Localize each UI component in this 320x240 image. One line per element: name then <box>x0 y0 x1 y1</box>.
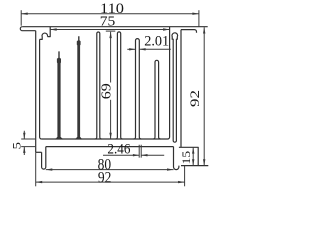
right bottom notch <box>179 147 198 165</box>
right wall inner face <box>169 27 171 137</box>
dim 5 ext ticks <box>21 139 35 147</box>
fin B <box>116 32 123 139</box>
dim 2.01 right tail <box>139 48 171 50</box>
arrow 2.46 left <box>133 154 139 156</box>
dim 110 line <box>21 13 199 15</box>
dim 75 line <box>50 29 169 31</box>
left screw-port curl <box>40 33 48 39</box>
arrow 69 bottom <box>109 133 111 139</box>
fin A <box>95 32 102 139</box>
arrow 2.01 right <box>139 48 145 50</box>
arrow 5 top <box>23 133 25 139</box>
dim 110 ext right <box>198 10 200 27</box>
right flange underside with hook <box>181 30 197 33</box>
dimension texts <box>9 1 202 187</box>
arrow 75 right <box>163 28 170 30</box>
needle fin 1 <box>57 51 61 139</box>
right wall outer face <box>180 30 182 148</box>
arrow 5 bottom <box>23 147 25 153</box>
svg-text:92: 92 <box>188 90 202 107</box>
dim 2.46 tails <box>103 154 164 156</box>
dim 69 line lower <box>110 100 112 139</box>
needle fin 2 base fillets <box>75 137 82 139</box>
dim 110 ext left <box>20 10 22 26</box>
dim 80 line <box>46 169 174 171</box>
base bottom surface <box>46 146 174 148</box>
left wall inner lower face <box>40 39 42 139</box>
svg-text:92: 92 <box>98 169 112 186</box>
fin D <box>153 60 160 139</box>
arrow 75 left <box>50 28 57 30</box>
svg-text:69: 69 <box>99 83 114 99</box>
svg-text:15: 15 <box>181 151 193 165</box>
arrow 2.01 left <box>129 48 135 50</box>
right screw-port curl and slot <box>172 33 178 142</box>
left leg <box>42 147 46 170</box>
svg-text:5: 5 <box>9 142 23 150</box>
dim 92 bottom ext left <box>35 152 37 186</box>
arrow 110 left <box>21 13 28 15</box>
arrow 92 right bottom <box>203 159 205 165</box>
dim 92 bottom ext right <box>184 166 186 186</box>
top-left flange lip nose <box>20 27 35 31</box>
dim 92 right line <box>203 27 205 165</box>
arrow 80 right <box>167 168 174 170</box>
right leg <box>173 147 178 170</box>
dim 2.46 ext ticks <box>139 145 141 158</box>
dim 2.01 left tail <box>127 48 135 50</box>
base top surface <box>42 137 170 139</box>
arrow 69 top <box>109 32 111 38</box>
needle fin 1 base fillets <box>56 137 63 139</box>
profile top plate <box>22 26 207 28</box>
arrow 92 right top <box>203 27 205 33</box>
left wall inner upper face <box>48 27 51 37</box>
left wall outer face <box>35 31 37 153</box>
left wall bottom step <box>36 151 42 153</box>
needle fin 2 <box>77 36 81 139</box>
arrowheads <box>21 13 205 184</box>
fin C <box>134 39 142 139</box>
dim 69 line upper <box>110 32 112 83</box>
arrow 110 right <box>192 13 199 15</box>
dim 92 bottom line <box>36 181 185 183</box>
svg-text:2.46: 2.46 <box>107 142 130 158</box>
dim 69 top tick <box>106 30 116 32</box>
svg-text:2.01: 2.01 <box>144 34 169 50</box>
arrow 2.46 right <box>141 154 147 156</box>
arrow 92 bottom right <box>178 181 185 183</box>
arrow 92 bottom left <box>36 181 43 183</box>
arrow 15 top <box>192 147 194 153</box>
dimension lines <box>21 10 204 186</box>
svg-text:75: 75 <box>100 14 116 29</box>
dim 5 arrow tails <box>23 131 25 155</box>
arrow 80 left <box>46 168 53 170</box>
arrow 15 bottom <box>192 159 194 165</box>
bottom-right edge <box>181 165 208 167</box>
dim 15 line <box>192 147 194 165</box>
